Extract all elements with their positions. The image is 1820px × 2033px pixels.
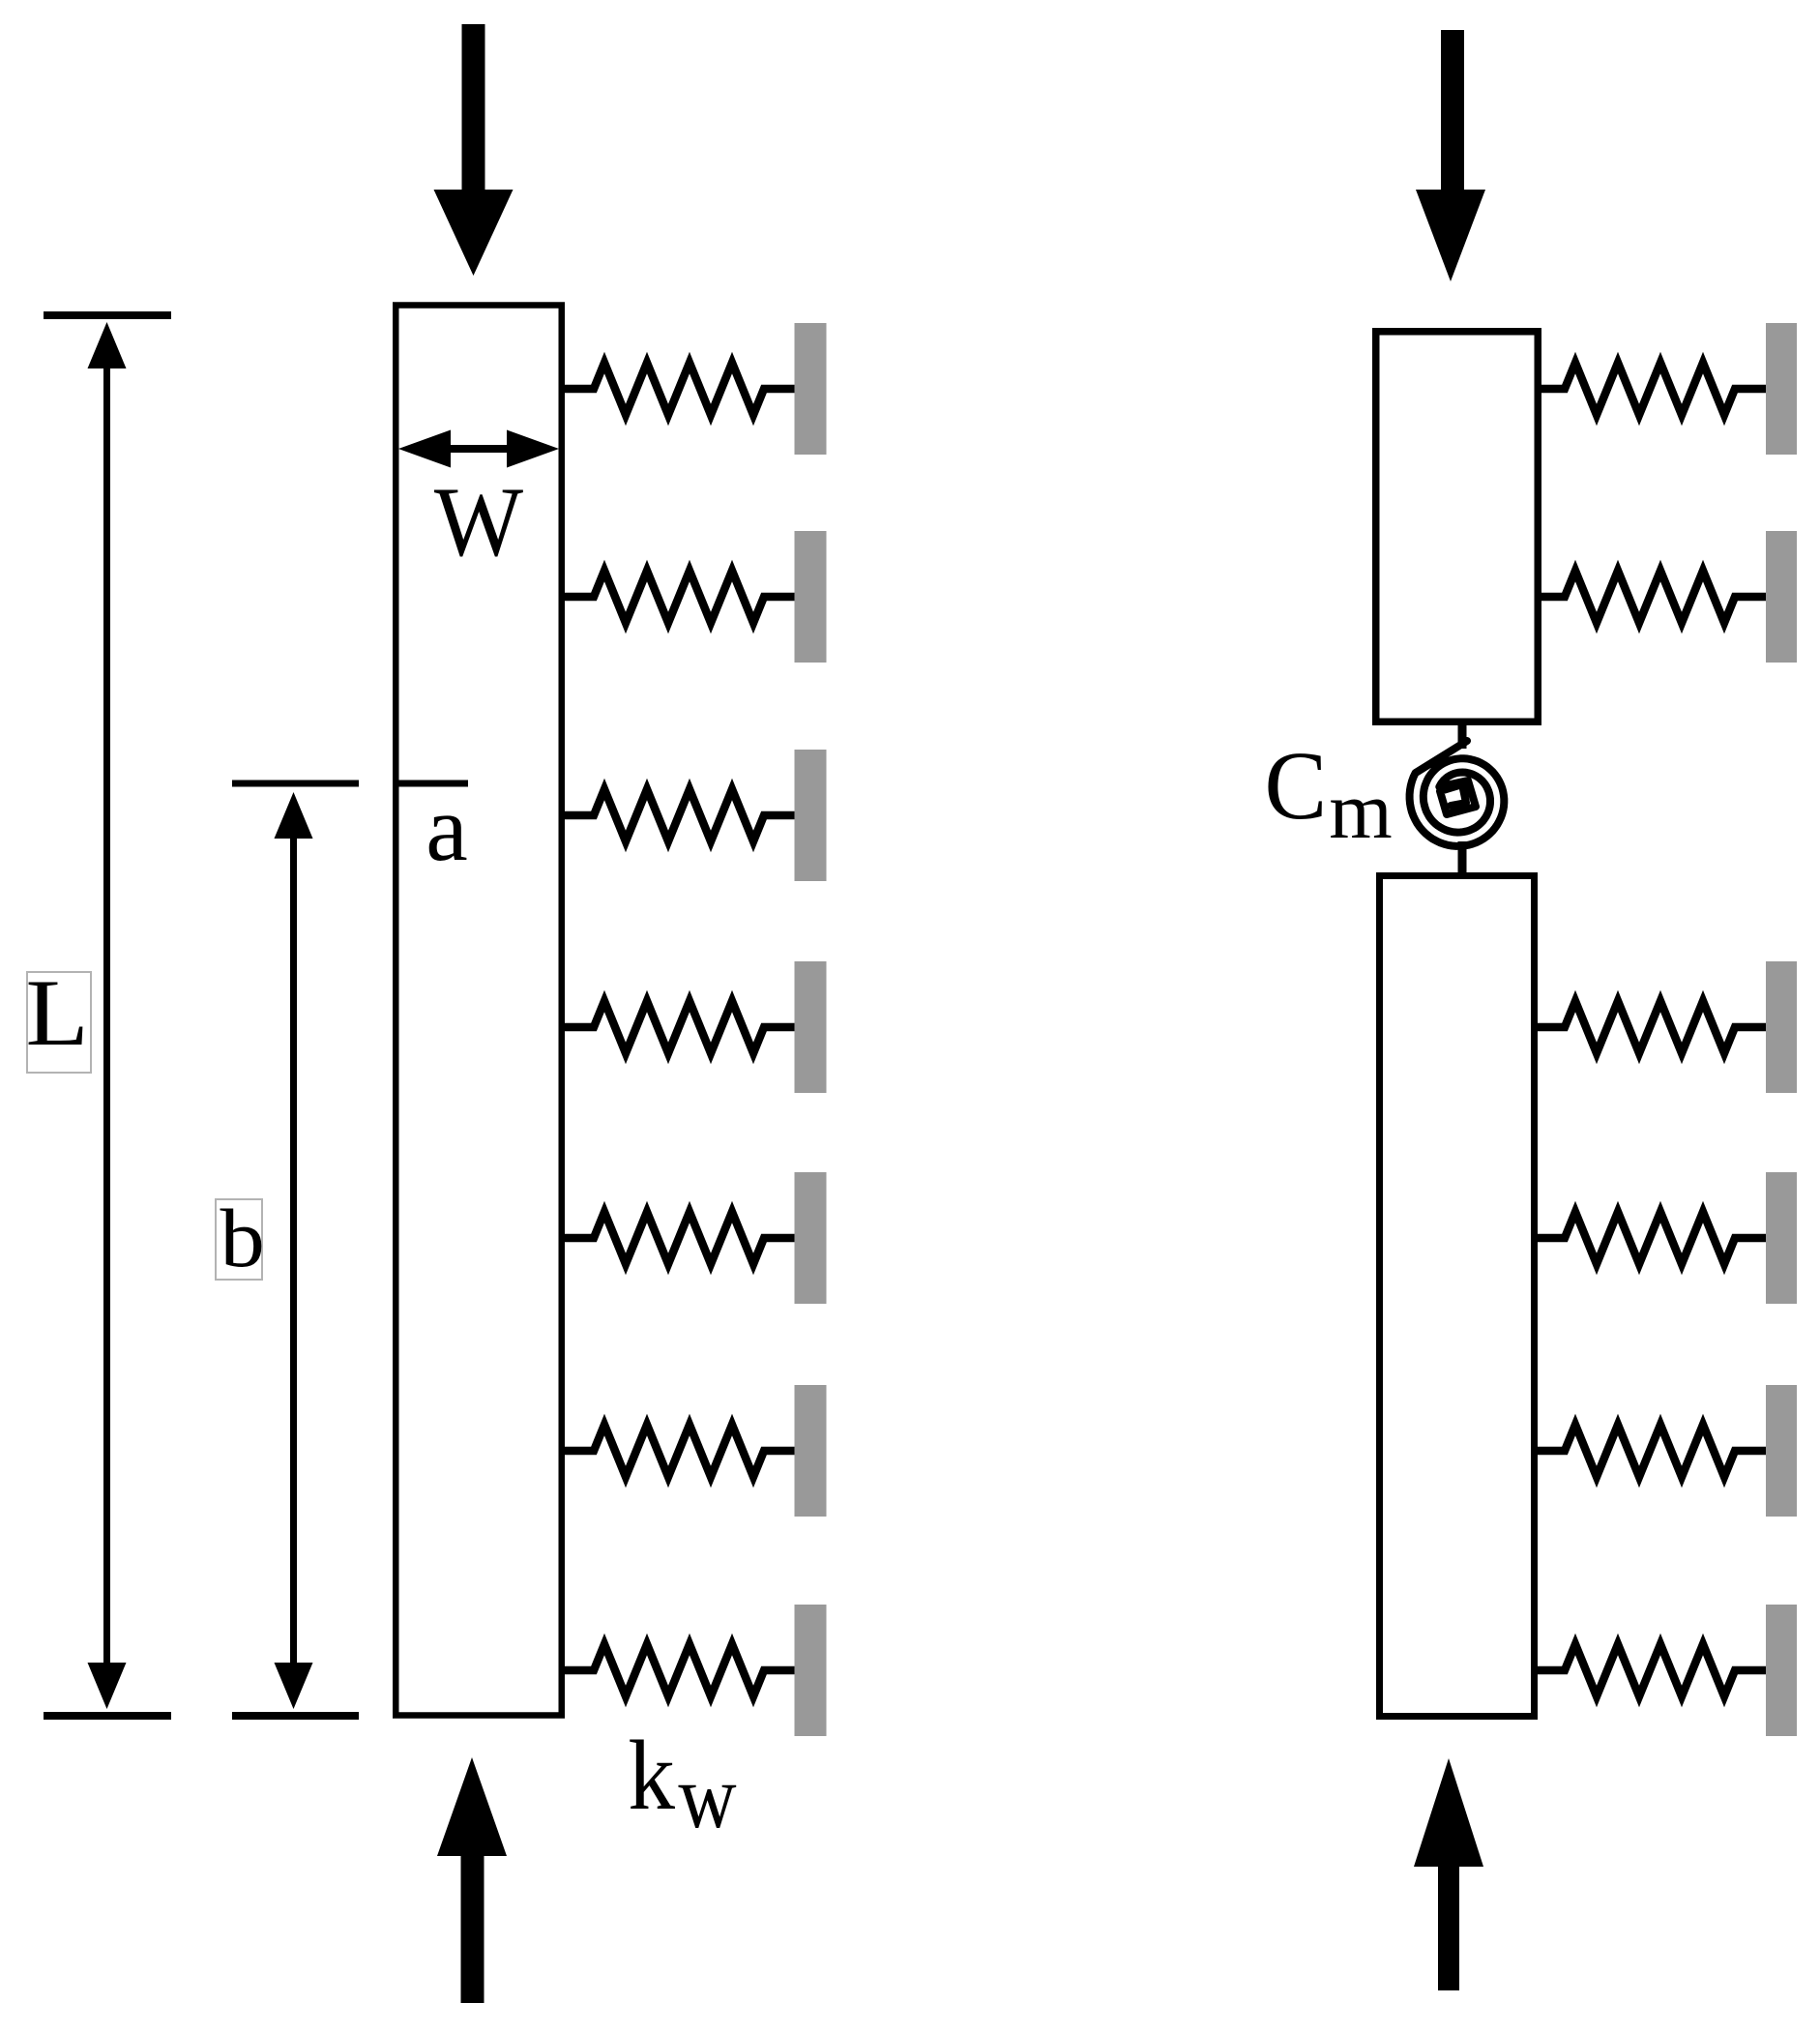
upper segment (right beam, above rotational spring) [1376,332,1539,722]
winkler spring k_w #2 (left) [565,571,795,623]
svg-text:b: b [220,1193,265,1284]
force arrow bottom-left (upward axial load) [437,1757,507,2003]
svg-text:L: L [26,960,89,1067]
label L [26,960,92,1073]
svg-text:m: m [1329,766,1392,856]
foundation anchor block #5 (left) [795,1172,827,1304]
foundation anchor block #7 (left) [795,1605,827,1736]
foundation anchor block #4 (right) [1766,1172,1797,1304]
dimension tick bottom (L) [44,1712,171,1720]
foundation anchor block #2 (left) [795,531,827,663]
foundation anchor block #4 (left) [795,961,827,1093]
dimension tick top (L) [44,311,171,319]
winkler spring k_w #4 (right, lower segment) [1536,1212,1766,1264]
winkler spring k_w #5 (right, lower segment) [1536,1425,1766,1477]
winkler spring k_w #3 (left) [565,789,795,841]
dimension line b (vertical double arrow) [275,792,313,1709]
winkler spring k_w #5 (left) [565,1212,795,1264]
winkler spring k_w #1 (right, upper segment) [1536,363,1766,415]
winkler spring k_w #4 (left) [565,1001,795,1053]
foundation anchor block #6 (right) [1766,1605,1797,1736]
winkler spring k_w #7 (left) [565,1644,795,1696]
svg-text:a: a [426,777,468,881]
foundation anchor block #2 (right) [1766,531,1797,663]
foundation anchor block #3 (right) [1766,961,1797,1093]
svg-text:C: C [1265,732,1328,840]
force arrow top-right (downward axial load) [1416,30,1485,281]
svg-text:W: W [434,467,523,577]
dimension tick bottom (b) [232,1712,359,1720]
dimension tick top (b) [232,781,359,787]
winkler spring k_w #6 (left) [565,1425,795,1477]
foundation anchor block #1 (left) [795,323,827,455]
width dimension W (horizontal double arrow) [398,430,559,468]
crack position tick a [396,781,468,787]
force arrow top-left (downward axial load) [434,24,514,276]
force arrow bottom-right (upward axial load) [1414,1758,1483,1990]
dimension line L (vertical double arrow) [88,322,127,1709]
winkler spring k_w #2 (right, upper segment) [1536,571,1766,623]
link upper segment to rotational spring [1458,722,1467,749]
label b [216,1193,265,1284]
lower segment (right beam, below rotational spring) [1380,876,1535,1717]
svg-text:k: k [628,1721,676,1831]
winkler spring k_w #6 (right, lower segment) [1536,1644,1766,1696]
foundation anchor block #3 (left) [795,750,827,881]
foundation anchor block #1 (right) [1766,323,1797,455]
svg-text:w: w [678,1747,736,1847]
winkler spring k_w #3 (right, lower segment) [1536,1001,1766,1053]
foundation anchor block #6 (left) [795,1385,827,1517]
winkler spring k_w #1 (left) [565,363,795,415]
rotational spring C_m (spiral) [1410,741,1505,846]
foundation anchor block #5 (right) [1766,1385,1797,1517]
link rotational spring to lower segment [1458,841,1467,876]
column (left cracked beam) [396,306,562,1716]
